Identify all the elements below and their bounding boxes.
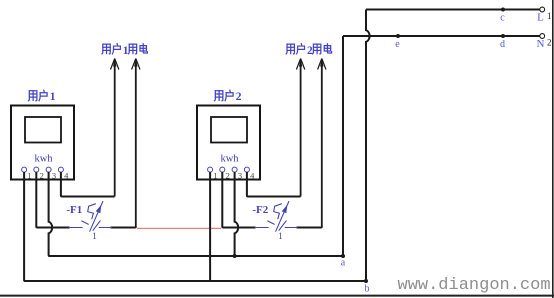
terminal N circle bbox=[540, 34, 545, 39]
svg-text:d: d bbox=[500, 39, 505, 50]
svg-text:2: 2 bbox=[307, 45, 313, 57]
svg-text:1: 1 bbox=[50, 91, 56, 103]
label 用户2 (User 2) bbox=[214, 90, 241, 103]
svg-text:3: 3 bbox=[238, 171, 242, 181]
meter kwh-2 terminal 2 circle bbox=[220, 167, 225, 172]
svg-text:L: L bbox=[537, 12, 544, 24]
svg-text:-F1: -F1 bbox=[66, 204, 82, 216]
node a bbox=[341, 254, 345, 258]
meter kwh-2 terminal 4 circle bbox=[244, 167, 249, 172]
wire N supply line bbox=[343, 35, 540, 37]
wire breaker F1 output corner bbox=[111, 227, 136, 228]
svg-text:c: c bbox=[500, 13, 505, 24]
node b bbox=[364, 279, 368, 283]
wire m2 terminal3 down with hop to a-line bbox=[235, 172, 239, 256]
wire load arrow user2 right (from breaker F2) bbox=[318, 59, 326, 228]
wire load arrow user2 left (to terminal4) bbox=[296, 59, 304, 197]
svg-text:www.diangon.com: www.diangon.com bbox=[398, 276, 551, 295]
svg-text:1: 1 bbox=[123, 45, 129, 57]
terminal L circle bbox=[540, 7, 545, 12]
meter kwh-2 display window bbox=[211, 117, 247, 143]
wire red annotation line bbox=[137, 227, 222, 229]
wire m1 terminal1 corner to b-line bbox=[24, 172, 25, 281]
label 用户1用电 (User 1 load) bbox=[102, 44, 147, 57]
node e bbox=[396, 34, 400, 38]
wire load arrow user1 right (from breaker F1) bbox=[132, 59, 140, 228]
circuit breaker -F1 symbol bbox=[69, 202, 111, 232]
svg-text:kwh: kwh bbox=[34, 154, 53, 165]
node c bbox=[501, 8, 505, 12]
image bottom border bbox=[0, 295, 554, 297]
wire neutral bus (a-line) bbox=[49, 255, 343, 257]
svg-text:-F2: -F2 bbox=[252, 204, 268, 216]
wire phase bus (b-line) bbox=[24, 280, 366, 282]
wire load arrow user1 left (to terminal4) bbox=[111, 59, 119, 197]
node d bbox=[501, 34, 505, 38]
wire L supply line bbox=[366, 9, 540, 11]
svg-text:1: 1 bbox=[547, 11, 552, 21]
meter kwh-2 terminal 1 circle bbox=[208, 167, 213, 172]
svg-text:1: 1 bbox=[92, 232, 97, 242]
svg-text:1: 1 bbox=[278, 232, 283, 242]
image right border bbox=[552, 0, 554, 298]
svg-text:2: 2 bbox=[236, 91, 242, 103]
wire m1 terminal4 to load bbox=[61, 172, 115, 197]
svg-text:2: 2 bbox=[40, 171, 44, 181]
label 用户1 (User 1) bbox=[28, 90, 55, 103]
meter kwh-1 terminal 3 circle bbox=[46, 167, 51, 172]
meter kwh-1 terminal 2 circle bbox=[34, 167, 39, 172]
meter kwh-1 terminal 1 circle bbox=[22, 167, 27, 172]
wire m2 terminal1 down to b-line bbox=[209, 172, 211, 281]
wire m2 terminal4 to load bbox=[247, 172, 301, 197]
svg-text:2: 2 bbox=[226, 171, 230, 181]
svg-text:4: 4 bbox=[64, 171, 69, 181]
meter kwh-1 display window bbox=[25, 117, 61, 143]
svg-text:b: b bbox=[365, 284, 370, 295]
circuit breaker -F2 symbol bbox=[255, 202, 297, 232]
junction m2 terminal3 on a-line bbox=[233, 254, 237, 258]
svg-text:kwh: kwh bbox=[220, 154, 239, 165]
wire m2 terminal2 down-right to breaker F2 bbox=[222, 172, 255, 228]
svg-text:1: 1 bbox=[213, 171, 217, 181]
wire breaker F2 output corner bbox=[297, 227, 322, 228]
svg-text:e: e bbox=[395, 39, 400, 50]
svg-text:N: N bbox=[537, 38, 545, 50]
svg-text:a: a bbox=[341, 258, 346, 269]
meter kwh-2 outer case bbox=[197, 106, 260, 180]
svg-text:1: 1 bbox=[27, 171, 31, 181]
svg-text:4: 4 bbox=[250, 171, 255, 181]
svg-text:2: 2 bbox=[547, 38, 552, 48]
wire m1 terminal3 down with hop to a-line bbox=[49, 172, 53, 256]
label 用户2用电 (User 2 load) bbox=[286, 44, 331, 57]
wire N feeder vertical bbox=[342, 36, 344, 256]
wire L feeder vertical with hop over N bbox=[366, 10, 370, 282]
meter kwh-1 outer case bbox=[11, 106, 74, 180]
meter kwh-1 terminal 4 circle bbox=[58, 167, 63, 172]
svg-text:3: 3 bbox=[52, 171, 56, 181]
meter kwh-2 terminal 3 circle bbox=[232, 167, 237, 172]
wire m1 terminal2 down-right to breaker bbox=[36, 172, 69, 228]
